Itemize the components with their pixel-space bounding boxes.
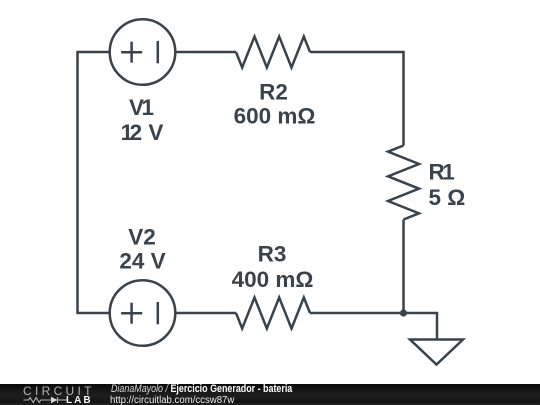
logo CIRCUIT text	[23, 386, 95, 396]
svg-text:V1: V1	[129, 95, 154, 120]
label V2	[119, 225, 165, 274]
wire: R3 to junction	[310, 312, 404, 315]
wire: junction to ground	[404, 313, 438, 340]
ground	[410, 340, 463, 365]
label R2 600 mOhm	[234, 79, 316, 128]
wire: V2 to R3	[175, 312, 236, 315]
node: junction dot	[400, 309, 407, 316]
wire: V1 to R2	[175, 51, 236, 54]
resistor R3	[236, 298, 310, 329]
footer line 1	[111, 384, 292, 395]
footer bar	[0, 384, 540, 405]
wire: top-left from left rail to V1	[78, 51, 111, 54]
svg-text:24 V: 24 V	[119, 248, 165, 273]
voltage source V2	[110, 280, 176, 346]
svg-text:600 mΩ: 600 mΩ	[234, 104, 316, 129]
footer line 2	[110, 396, 234, 405]
voltage source V1	[110, 19, 176, 85]
wire: bottom-left from left rail to V2	[78, 312, 111, 315]
svg-text:400 mΩ: 400 mΩ	[232, 267, 314, 292]
logo LAB text	[66, 396, 93, 405]
wire: left rail	[76, 51, 79, 314]
svg-text:5 Ω: 5 Ω	[429, 185, 466, 210]
svg-text:V2: V2	[128, 225, 156, 250]
wire: R2 to top-right corner down to R1	[310, 52, 404, 146]
label R1 5 Ohm	[429, 160, 466, 211]
svg-text:R1: R1	[429, 160, 455, 185]
svg-text:R2: R2	[259, 79, 288, 104]
logo schematic symbol	[22, 395, 68, 405]
label R3 400 mOhm	[232, 242, 314, 292]
svg-text:12 V: 12 V	[121, 120, 164, 145]
wire: R1 to junction	[402, 220, 405, 314]
resistor R1	[388, 146, 419, 220]
svg-text:R3: R3	[258, 242, 287, 267]
label V1	[121, 95, 164, 145]
resistor R2	[236, 37, 310, 68]
